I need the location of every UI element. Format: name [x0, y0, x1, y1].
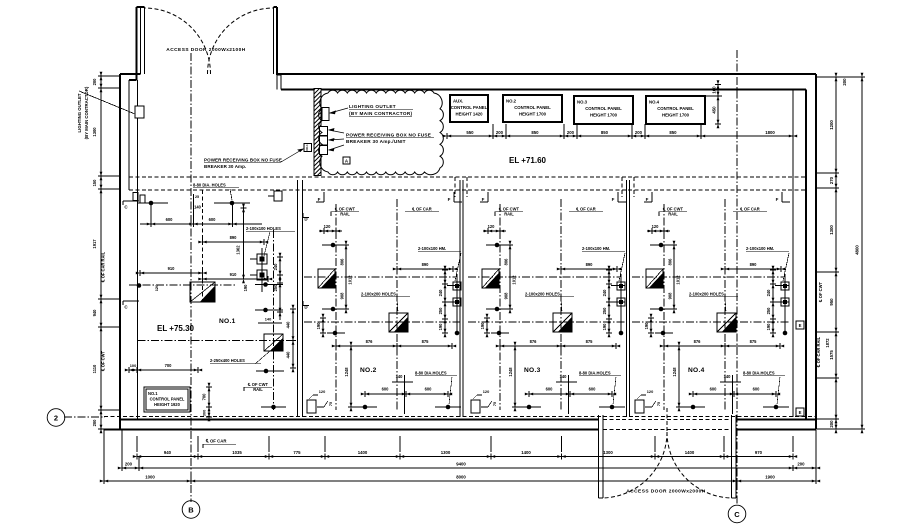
svg-text:2-250x400 HOLES: 2-250x400 HOLES — [210, 358, 245, 363]
svg-text:940: 940 — [164, 450, 172, 455]
svg-text:550: 550 — [466, 130, 474, 135]
svg-text:120: 120 — [324, 224, 332, 229]
svg-text:AUX.: AUX. — [453, 99, 463, 104]
svg-text:1200: 1200 — [829, 120, 834, 130]
svg-text:120: 120 — [319, 389, 326, 394]
svg-text:250: 250 — [766, 307, 771, 315]
svg-text:775: 775 — [293, 450, 301, 455]
svg-text:1917: 1917 — [92, 239, 97, 249]
svg-text:850: 850 — [669, 130, 677, 135]
svg-text:RAIL: RAIL — [668, 212, 678, 217]
svg-text:1110: 1110 — [92, 364, 97, 373]
svg-text:875: 875 — [422, 339, 430, 344]
svg-text:150: 150 — [92, 179, 97, 187]
svg-text:F: F — [482, 197, 485, 202]
svg-text:CONTROL PANEL: CONTROL PANEL — [451, 105, 488, 110]
svg-text:F: F — [646, 197, 649, 202]
svg-text:9400: 9400 — [456, 462, 466, 467]
svg-text:910: 910 — [168, 266, 176, 271]
svg-text:EL +75.30: EL +75.30 — [157, 324, 195, 333]
svg-text:440: 440 — [286, 321, 291, 329]
svg-text:600: 600 — [710, 387, 718, 392]
svg-text:NO.4: NO.4 — [688, 367, 705, 374]
svg-text:F: F — [612, 197, 615, 202]
svg-text:200: 200 — [842, 78, 847, 86]
svg-text:CONTROL PANEL: CONTROL PANEL — [657, 106, 694, 111]
svg-text:8-80 DIA.HOLES: 8-80 DIA.HOLES — [415, 371, 447, 376]
svg-text:200: 200 — [125, 462, 133, 467]
svg-text:HEIGHT 1920: HEIGHT 1920 — [154, 402, 180, 407]
svg-text:8000: 8000 — [456, 475, 466, 480]
svg-text:200: 200 — [829, 420, 834, 428]
svg-text:1012: 1012 — [676, 275, 681, 285]
svg-text:850: 850 — [601, 130, 609, 135]
svg-text:℄ OF CAR: ℄ OF CAR — [205, 439, 227, 444]
svg-text:890: 890 — [586, 262, 594, 267]
svg-text:2-100x200 HOLES: 2-100x200 HOLES — [525, 292, 560, 297]
svg-text:190: 190 — [316, 322, 321, 330]
svg-text:600: 600 — [382, 387, 390, 392]
svg-text:BREAKER 30 Amp./UNIT: BREAKER 30 Amp./UNIT — [346, 139, 406, 144]
svg-text:300: 300 — [202, 410, 207, 417]
svg-text:1248: 1248 — [344, 367, 349, 377]
svg-text:HEIGHT 1700: HEIGHT 1700 — [662, 113, 690, 118]
svg-text:1035: 1035 — [232, 450, 242, 455]
svg-text:8-80 DIA.HOLES: 8-80 DIA.HOLES — [579, 371, 611, 376]
svg-text:1012: 1012 — [348, 275, 353, 285]
svg-text:NO.1: NO.1 — [219, 318, 236, 325]
svg-text:250: 250 — [602, 307, 607, 315]
svg-text:875: 875 — [750, 339, 758, 344]
svg-text:NO.1: NO.1 — [305, 144, 309, 151]
svg-text:600: 600 — [546, 387, 554, 392]
svg-text:876: 876 — [530, 339, 538, 344]
svg-text:876: 876 — [694, 339, 702, 344]
svg-text:1400: 1400 — [358, 450, 368, 455]
svg-text:140: 140 — [724, 374, 732, 379]
svg-text:2-100x100 HM.: 2-100x100 HM. — [746, 246, 774, 251]
svg-text:200: 200 — [797, 462, 805, 467]
svg-text:908: 908 — [504, 292, 509, 300]
svg-text:℄ OF CAR: ℄ OF CAR — [411, 207, 432, 212]
svg-text:NO.2: NO.2 — [506, 99, 517, 104]
svg-text:890: 890 — [230, 235, 238, 240]
svg-text:440: 440 — [286, 351, 291, 359]
svg-text:240: 240 — [766, 289, 771, 297]
svg-text:CONTROL PANEL: CONTROL PANEL — [150, 397, 185, 402]
svg-text:1300: 1300 — [829, 225, 834, 235]
svg-text:190: 190 — [480, 322, 485, 330]
svg-text:HEIGHT 1700: HEIGHT 1700 — [590, 113, 618, 118]
svg-text:RAIL: RAIL — [504, 212, 514, 217]
svg-text:1012: 1012 — [512, 275, 517, 285]
svg-text:100: 100 — [130, 363, 137, 368]
svg-text:C: C — [734, 510, 740, 519]
svg-text:200: 200 — [92, 419, 97, 427]
svg-text:120: 120 — [652, 224, 660, 229]
svg-text:190: 190 — [438, 323, 443, 331]
svg-text:4800: 4800 — [855, 245, 860, 255]
svg-text:140: 140 — [560, 374, 568, 379]
svg-text:600: 600 — [589, 387, 597, 392]
svg-text:190: 190 — [766, 323, 771, 331]
svg-text:875: 875 — [586, 339, 594, 344]
svg-text:200: 200 — [567, 130, 575, 135]
svg-text:NO.3: NO.3 — [577, 100, 588, 105]
svg-text:1400: 1400 — [685, 450, 695, 455]
svg-text:600: 600 — [753, 387, 761, 392]
svg-text:876: 876 — [366, 339, 374, 344]
svg-text:270: 270 — [829, 176, 834, 184]
svg-text:F: F — [776, 197, 779, 202]
svg-text:140: 140 — [396, 374, 404, 379]
svg-text:1800: 1800 — [765, 130, 775, 135]
svg-text:250: 250 — [438, 307, 443, 315]
svg-text:2: 2 — [54, 413, 58, 422]
svg-text:200: 200 — [496, 130, 504, 135]
svg-text:120: 120 — [154, 285, 159, 292]
svg-text:E: E — [799, 323, 802, 328]
svg-text:940: 940 — [92, 309, 97, 317]
svg-text:806: 806 — [668, 258, 673, 266]
svg-text:LIGHTING OUTLET: LIGHTING OUTLET — [77, 93, 82, 132]
svg-text:140: 140 — [265, 317, 272, 322]
svg-text:2-100x200 HOLES: 2-100x200 HOLES — [689, 292, 724, 297]
svg-text:806: 806 — [340, 258, 345, 266]
svg-text:200: 200 — [635, 130, 643, 135]
svg-text:1575: 1575 — [829, 350, 834, 360]
svg-text:1362: 1362 — [236, 245, 241, 255]
svg-text:240: 240 — [602, 289, 607, 297]
svg-text:ACCESS DOOR 2000Wx2000H: ACCESS DOOR 2000Wx2000H — [626, 489, 705, 495]
svg-text:1248: 1248 — [672, 367, 677, 377]
svg-text:RAIL: RAIL — [340, 212, 350, 217]
svg-text:700: 700 — [165, 363, 173, 368]
svg-text:890: 890 — [422, 262, 430, 267]
svg-text:908: 908 — [668, 292, 673, 300]
svg-text:℄ OF CAR: ℄ OF CAR — [739, 207, 760, 212]
svg-text:E: E — [799, 410, 802, 415]
svg-text:450: 450 — [712, 106, 717, 114]
svg-text:8-80 DIA. HOLES: 8-80 DIA. HOLES — [193, 183, 226, 188]
svg-text:1300: 1300 — [603, 450, 613, 455]
svg-text:850: 850 — [531, 130, 539, 135]
svg-text:B: B — [188, 505, 194, 514]
svg-text:1000: 1000 — [145, 475, 155, 480]
svg-text:100: 100 — [712, 86, 717, 94]
svg-text:700: 700 — [202, 393, 207, 401]
svg-text:℄ OF CAR: ℄ OF CAR — [575, 207, 596, 212]
svg-text:EL +71.60: EL +71.60 — [509, 156, 547, 165]
svg-text:908: 908 — [340, 292, 345, 300]
svg-text:190: 190 — [602, 323, 607, 331]
svg-text:806: 806 — [504, 258, 509, 266]
svg-text:8-80 DIA.HOLES: 8-80 DIA.HOLES — [743, 371, 775, 376]
svg-text:F: F — [318, 197, 321, 202]
svg-text:240: 240 — [438, 289, 443, 297]
svg-text:CONTROL PANEL: CONTROL PANEL — [514, 105, 551, 110]
svg-text:120: 120 — [488, 224, 496, 229]
svg-text:600: 600 — [166, 217, 174, 222]
svg-text:910: 910 — [230, 272, 238, 277]
svg-text:POWER RECEIVING BOX NO FUSE: POWER RECEIVING BOX NO FUSE — [204, 158, 282, 163]
svg-text:RAIL: RAIL — [253, 387, 263, 392]
svg-text:25: 25 — [195, 195, 199, 199]
svg-text:200: 200 — [92, 78, 97, 86]
svg-text:600: 600 — [425, 387, 433, 392]
svg-text:℄ OF CWT: ℄ OF CWT — [818, 282, 823, 303]
svg-text:(BY MAIN CONTRACTOR): (BY MAIN CONTRACTOR) — [84, 86, 89, 139]
svg-text:120: 120 — [647, 389, 654, 394]
svg-text:1300: 1300 — [92, 127, 97, 137]
svg-text:120: 120 — [483, 389, 490, 394]
svg-text:1872: 1872 — [825, 338, 830, 348]
svg-text:950: 950 — [829, 298, 834, 306]
svg-text:NO.4: NO.4 — [649, 100, 660, 105]
svg-text:(BY MAIN CONTRACTOR): (BY MAIN CONTRACTOR) — [349, 111, 413, 116]
svg-text:1248: 1248 — [508, 367, 513, 377]
svg-text:BREAKER 30 Amp.: BREAKER 30 Amp. — [204, 164, 246, 169]
svg-text:1900: 1900 — [765, 475, 775, 480]
svg-text:140: 140 — [194, 205, 202, 210]
svg-text:2-100x200 HOLES: 2-100x200 HOLES — [361, 292, 396, 297]
svg-text:NO.3: NO.3 — [524, 367, 541, 374]
svg-text:HEIGHT 1420: HEIGHT 1420 — [456, 112, 484, 117]
svg-text:2-100x100 HM.: 2-100x100 HM. — [418, 246, 446, 251]
svg-text:890: 890 — [750, 262, 758, 267]
svg-text:600: 600 — [209, 217, 217, 222]
svg-text:2-100x100 HOLES: 2-100x100 HOLES — [246, 226, 281, 231]
svg-text:CONTROL PANEL: CONTROL PANEL — [585, 106, 622, 111]
svg-text:190: 190 — [243, 284, 248, 292]
svg-text:HEIGHT 1700: HEIGHT 1700 — [519, 112, 547, 117]
svg-text:190: 190 — [644, 322, 649, 330]
svg-text:℄ OF CAR RAIL: ℄ OF CAR RAIL — [816, 336, 821, 368]
svg-text:NO.2: NO.2 — [360, 367, 377, 374]
svg-text:1400: 1400 — [521, 450, 531, 455]
svg-text:ACCESS DOOR 2000Wx2100H: ACCESS DOOR 2000Wx2100H — [166, 47, 245, 53]
svg-text:LIGHTING OUTLET: LIGHTING OUTLET — [349, 104, 396, 109]
svg-text:NO.1: NO.1 — [148, 391, 158, 396]
svg-text:970: 970 — [755, 450, 763, 455]
svg-text:POWER RECEIVING BOX NO FUSE: POWER RECEIVING BOX NO FUSE — [346, 133, 431, 138]
svg-text:F: F — [448, 197, 451, 202]
svg-text:2-100x100 HM.: 2-100x100 HM. — [582, 246, 610, 251]
svg-text:1300: 1300 — [441, 450, 451, 455]
